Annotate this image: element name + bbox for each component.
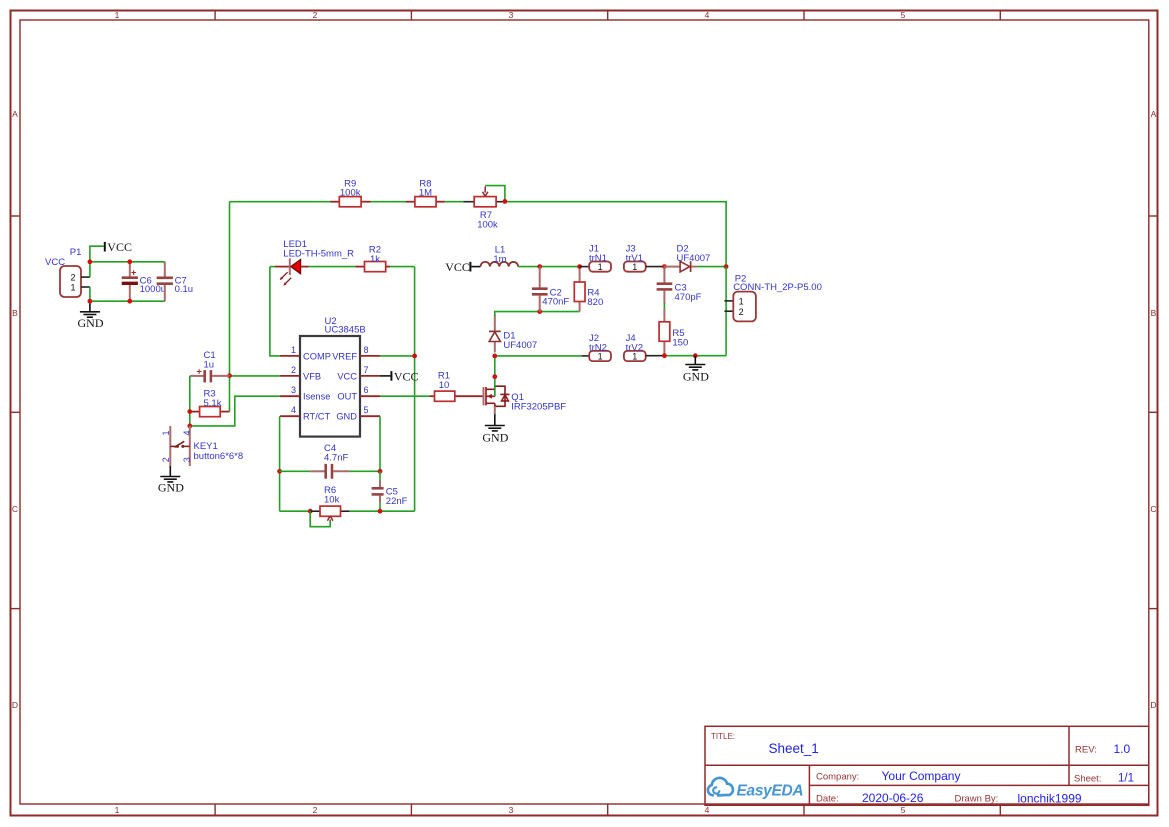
svg-text:2020-06-26: 2020-06-26 [862, 791, 924, 805]
resistor R1 [430, 371, 484, 402]
wire LED cathode stub [270, 266, 277, 268]
wire P1 pin1 to GND [89, 287, 91, 301]
svg-text:1.0: 1.0 [1114, 742, 1131, 756]
wire C5 column [379, 471, 381, 481]
wire C1 dot to U2 pin2 [230, 375, 281, 377]
svg-text:VCC: VCC [337, 371, 357, 381]
node C5 bottom junction [378, 509, 383, 514]
wire P1 pin2 to VCC flag [90, 246, 104, 277]
wire bottom rail right [350, 510, 415, 512]
svg-text:100k: 100k [340, 188, 361, 199]
svg-text:5: 5 [364, 405, 369, 415]
svg-text:OUT: OUT [337, 392, 357, 402]
capacitor C2 [532, 267, 570, 312]
svg-text:470pF: 470pF [675, 292, 702, 303]
svg-text:trN1: trN1 [589, 253, 607, 264]
svg-text:8: 8 [364, 345, 369, 355]
svg-text:3: 3 [509, 805, 514, 815]
wire U2 pin4 down-left vertical [279, 416, 281, 511]
resistor R8 [406, 178, 445, 207]
svg-text:820: 820 [587, 297, 603, 308]
svg-text:Sheet:: Sheet: [1074, 773, 1101, 784]
svg-text:VFB: VFB [303, 371, 321, 381]
wire VCC rail P1 to C7 [90, 261, 165, 263]
svg-text:1: 1 [115, 10, 120, 20]
node C2 bottom junction [537, 309, 542, 314]
svg-text:150: 150 [672, 337, 688, 348]
svg-text:1: 1 [291, 345, 296, 355]
wire output rail R7 to right vertical [505, 202, 726, 267]
wire R7 wiper loop [485, 186, 505, 202]
wire R2 to VREF vertical [390, 266, 414, 268]
power flag VCC (P1) [104, 240, 132, 254]
resistor R2 [355, 245, 390, 272]
svg-text:GND: GND [336, 412, 357, 422]
svg-text:trV1: trV1 [626, 253, 643, 264]
resistor R3 [190, 388, 230, 416]
svg-text:C: C [1150, 504, 1156, 514]
svg-text:2: 2 [313, 805, 318, 815]
svg-text:GND: GND [78, 316, 104, 330]
diode D1 UF4007 [489, 315, 537, 353]
node VREF junction [412, 354, 417, 359]
connector P2 [724, 274, 822, 322]
capacitor C6 [122, 262, 166, 301]
svg-text:1: 1 [115, 805, 120, 815]
svg-text:EasyEDA: EasyEDA [737, 783, 804, 800]
node KEY1 junction [187, 424, 192, 429]
pushbutton KEY1 [161, 426, 243, 466]
svg-text:COMP: COMP [303, 351, 331, 361]
svg-text:Your Company: Your Company [882, 769, 961, 783]
svg-text:7: 7 [364, 365, 369, 375]
inductor L1 [481, 245, 519, 267]
svg-text:1/1: 1/1 [1118, 773, 1134, 785]
svg-text:trV2: trV2 [626, 343, 643, 354]
svg-text:+: + [197, 367, 202, 377]
svg-text:lonchik1999: lonchik1999 [1018, 791, 1082, 805]
node C4/C5 junction [378, 469, 383, 474]
wire D1 to J2 [495, 355, 582, 357]
wire U2 pin6 OUT to R1 [380, 395, 430, 397]
svg-text:B: B [12, 308, 18, 318]
svg-text:1: 1 [161, 430, 171, 435]
transistor Q1 IRF3205PBF [484, 386, 567, 415]
svg-text:10k: 10k [324, 494, 340, 505]
node Q1 drain junction [492, 374, 497, 379]
svg-text:1: 1 [71, 282, 76, 292]
potentiometer R6 [310, 485, 350, 522]
svg-text:Sheet_1: Sheet_1 [769, 741, 819, 756]
LED LED1 [275, 239, 354, 286]
svg-text:4.7nF: 4.7nF [324, 453, 348, 464]
svg-text:UF4007: UF4007 [503, 340, 537, 351]
wire D1 to Q1 drain [494, 356, 496, 396]
svg-text:CONN-TH_2P-P5.00: CONN-TH_2P-P5.00 [733, 282, 822, 293]
svg-text:VREF: VREF [332, 351, 357, 361]
wire C1/R3 left vertical [189, 376, 191, 426]
capacitor C1 [190, 350, 230, 383]
node J1/R4 junction [577, 264, 582, 269]
wire GND rail P1 to C7 [90, 300, 165, 302]
ground (Q1) [482, 414, 508, 444]
svg-text:22nF: 22nF [386, 496, 408, 507]
wire P2 vertical [725, 267, 727, 356]
connector P1 [60, 247, 90, 297]
svg-text:GND: GND [158, 481, 184, 495]
node RT/CT junction [277, 469, 282, 474]
EasyEDA logo [708, 778, 804, 800]
svg-text:3: 3 [291, 385, 296, 395]
svg-text:3: 3 [182, 457, 192, 462]
diode D2 UF4007 [664, 244, 710, 272]
svg-text:100k: 100k [477, 220, 498, 231]
svg-text:1000u: 1000u [140, 284, 166, 295]
svg-text:VCC: VCC [445, 260, 470, 274]
svg-text:TITLE:: TITLE: [711, 732, 735, 741]
capacitor C7 [157, 262, 193, 301]
wire RT/CT to C4 [280, 470, 311, 472]
wire LED to R2 [309, 266, 356, 268]
connector J3 [624, 244, 665, 272]
svg-text:UC3845B: UC3845B [325, 325, 366, 336]
svg-text:Drawn By:: Drawn By: [955, 794, 999, 805]
svg-text:2: 2 [291, 365, 296, 375]
node P1 GND junction [88, 299, 93, 304]
wire VREF vertical [414, 267, 416, 512]
svg-text:C: C [12, 504, 18, 514]
svg-text:4: 4 [705, 805, 710, 815]
ground (J4) [683, 356, 709, 384]
svg-text:+: + [131, 267, 136, 277]
ground (KEY1) [158, 466, 184, 495]
svg-text:IRF3205PBF: IRF3205PBF [511, 402, 566, 413]
svg-text:6: 6 [364, 385, 369, 395]
node GND tap junction [693, 353, 698, 358]
svg-text:D: D [12, 700, 18, 710]
svg-text:LED-TH-5mm_R: LED-TH-5mm_R [283, 248, 354, 259]
wire C3 to R5 [663, 303, 665, 310]
svg-text:470nF: 470nF [542, 297, 569, 308]
svg-text:B: B [1151, 308, 1157, 318]
wire VREF stub to U2 pin8 [380, 355, 415, 357]
svg-text:trN2: trN2 [589, 343, 607, 354]
node J3/C3 junction [662, 264, 667, 269]
svg-text:UF4007: UF4007 [677, 253, 711, 264]
svg-text:10: 10 [439, 380, 450, 391]
svg-text:GND: GND [482, 431, 508, 445]
node R3 left junction [187, 409, 192, 414]
wire LED cathode to U2 pin1 [270, 267, 280, 356]
node R5/J4 junction [662, 353, 667, 358]
wire L1 to J1 [518, 266, 580, 268]
resistor R5 [659, 309, 688, 356]
wire bottom rail left [280, 510, 311, 512]
connector J1 [580, 244, 611, 272]
svg-text:1u: 1u [204, 359, 215, 370]
power flag VCC (U2 pin7) [380, 369, 419, 383]
svg-text:2: 2 [71, 273, 76, 283]
wire feedback top rail left segment [230, 201, 331, 203]
wire GND rail J4 to P2 [664, 355, 726, 357]
capacitor C4 [310, 443, 350, 479]
node C6 bottom junction [127, 299, 132, 304]
svg-text:3: 3 [509, 10, 514, 20]
wire D2 to P2 vertical [697, 266, 726, 268]
node C2 top junction [537, 264, 542, 269]
svg-text:1m: 1m [493, 254, 506, 265]
svg-text:button6*6*8: button6*6*8 [194, 451, 244, 462]
svg-text:D: D [1150, 700, 1156, 710]
node C6 top junction [127, 259, 132, 264]
connector J2 [582, 333, 611, 361]
svg-text:VCC: VCC [45, 257, 65, 268]
svg-text:5: 5 [901, 805, 906, 815]
ground (P1) [78, 301, 104, 330]
wire KEY1 to U2 pin3 [190, 396, 280, 426]
node D2/P2 junction [724, 264, 729, 269]
capacitor C3 [657, 267, 702, 304]
resistor R4 [574, 267, 603, 312]
power flag VCC (L1) [445, 260, 480, 274]
svg-text:P1: P1 [70, 247, 82, 258]
svg-text:A: A [12, 109, 18, 119]
node R7 right junction [503, 199, 508, 204]
node D1 bottom junction [492, 354, 497, 359]
svg-text:4: 4 [291, 405, 296, 415]
capacitor C5 [372, 481, 408, 508]
svg-text:5: 5 [901, 10, 906, 20]
svg-text:4: 4 [705, 10, 710, 20]
wire U2 pin5 down vertical [379, 416, 381, 471]
svg-text:4: 4 [182, 430, 192, 435]
wire C4 to C5 top [350, 470, 380, 472]
node VCC-P1 junction [88, 259, 93, 264]
svg-text:A: A [1151, 109, 1157, 119]
wire feedback vertical [229, 202, 231, 412]
svg-text:RT/CT: RT/CT [303, 412, 331, 422]
svg-text:Company:: Company: [816, 772, 859, 783]
wire R9 to R8 [371, 201, 406, 203]
resistor R9 [330, 178, 370, 207]
connector J4 [624, 333, 665, 361]
node bottom rail left junction [308, 509, 313, 514]
svg-text:1k: 1k [370, 254, 380, 265]
wire R8 to R7 [445, 201, 463, 203]
svg-text:2: 2 [161, 457, 171, 462]
potentiometer R7 [463, 187, 505, 231]
svg-text:VCC: VCC [394, 369, 419, 383]
IC U2 UC3845B [280, 316, 380, 436]
svg-text:Isense: Isense [303, 392, 330, 402]
svg-text:REV:: REV: [1075, 745, 1097, 756]
wire R6 wiper loop [310, 511, 330, 527]
svg-text:1M: 1M [419, 188, 432, 199]
svg-text:VCC: VCC [107, 240, 132, 254]
node VFB junction [227, 373, 232, 378]
svg-text:5.1k: 5.1k [204, 398, 222, 409]
wire C2 rail to D1 [495, 312, 580, 316]
svg-text:0.1u: 0.1u [175, 284, 194, 295]
svg-text:GND: GND [683, 370, 709, 384]
svg-text:1: 1 [739, 296, 744, 306]
svg-text:2: 2 [313, 10, 318, 20]
svg-text:2: 2 [739, 307, 744, 317]
title block [705, 726, 1149, 805]
svg-text:Date:: Date: [816, 793, 839, 804]
